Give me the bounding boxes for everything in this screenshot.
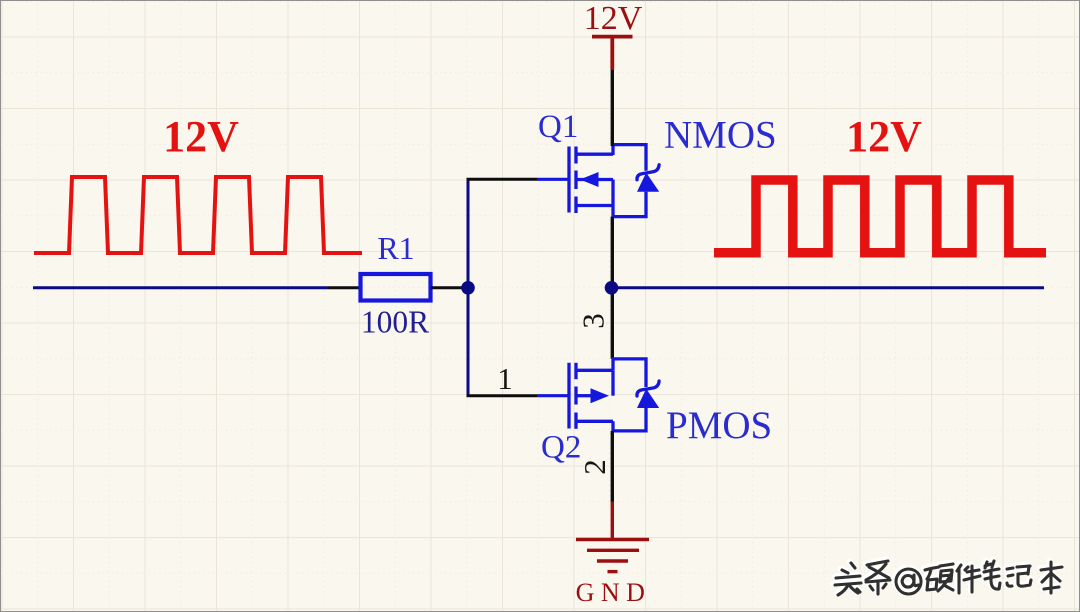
watermark 头条@硬件笔记本 bbox=[834, 560, 1062, 595]
wire gate bus vertical bbox=[467, 179, 470, 395]
node output junction bbox=[605, 281, 619, 295]
output square wave bbox=[714, 180, 1046, 253]
transistor Q2 bbox=[569, 359, 659, 431]
svg-text:NMOS: NMOS bbox=[664, 114, 777, 157]
resistor R1 pin 2 bbox=[431, 286, 468, 289]
wire 12V to Q1 drain bbox=[611, 70, 614, 146]
transistor Q2 gate lead bbox=[537, 394, 568, 397]
resistor R1 pin 1 bbox=[328, 286, 360, 289]
wire Q1 source to Q2 drain bbox=[611, 217, 614, 359]
wire to Q1 gate bbox=[467, 178, 538, 181]
node input junction bbox=[461, 281, 475, 295]
svg-text:12V: 12V bbox=[584, 1, 643, 37]
svg-text:2: 2 bbox=[577, 459, 612, 475]
transistor Q1 gate lead bbox=[537, 178, 568, 181]
svg-text:12V: 12V bbox=[846, 112, 922, 161]
transistor Q1 bbox=[569, 145, 659, 217]
power symbol 12V bbox=[592, 37, 633, 70]
wire output net bbox=[612, 286, 1045, 289]
wire Q2 source to GND bbox=[611, 431, 614, 503]
svg-text:12V: 12V bbox=[163, 112, 239, 161]
resistor R1 bbox=[361, 274, 431, 301]
svg-text:Q1: Q1 bbox=[538, 109, 578, 145]
svg-text:3: 3 bbox=[576, 313, 611, 329]
svg-text:R1: R1 bbox=[377, 230, 414, 266]
wire to Q2 gate bbox=[467, 394, 538, 397]
ground symbol bbox=[576, 502, 649, 572]
svg-text:Q2: Q2 bbox=[541, 430, 581, 466]
wire input net bbox=[33, 286, 328, 289]
input square wave bbox=[34, 177, 362, 253]
svg-text:100R: 100R bbox=[361, 305, 429, 340]
svg-text:1: 1 bbox=[497, 361, 513, 396]
svg-text:PMOS: PMOS bbox=[666, 404, 772, 447]
svg-text:GND: GND bbox=[576, 578, 652, 607]
